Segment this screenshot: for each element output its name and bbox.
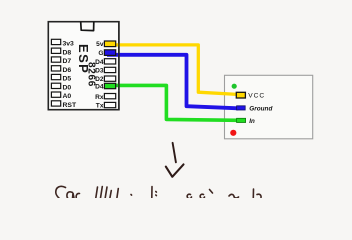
left pin row 3 (D7) (51, 57, 60, 62)
dot (130, 194, 133, 197)
right pin row 2 (G, blue) (104, 50, 115, 56)
right pin row 5 (D2) (104, 76, 115, 81)
chip border redraw over wires (48, 22, 119, 110)
left pin row 5 (D5) (51, 74, 60, 79)
svg-text:5v: 5v (96, 41, 104, 48)
svg-text:8266: 8266 (86, 62, 97, 87)
wave (229, 194, 239, 198)
svg-text:In: In (249, 118, 255, 125)
arrow shaft (173, 143, 176, 163)
svg-text:3v3: 3v3 (63, 41, 75, 48)
svg-text:A0: A0 (63, 93, 72, 100)
svg-text:VCC: VCC (248, 93, 265, 100)
small circles (187, 194, 191, 198)
left pin row 2 (D8) (51, 48, 60, 53)
module pin VCC (236, 92, 245, 98)
left pin row 8 (RST) (51, 101, 60, 106)
chip U1 (ESP 8266) body (48, 22, 119, 110)
letter c small (76, 193, 79, 198)
letter S (56, 186, 66, 199)
last stroke (252, 189, 254, 198)
svg-text:Ground: Ground (249, 106, 273, 113)
wire G blue: chip G pin to module Ground (107, 55, 238, 109)
tall stroke with dots (151, 187, 153, 199)
left pin row 6 (D0) (51, 83, 60, 88)
right pin row 1 (5v, yellow) (104, 41, 115, 47)
svg-text:D7: D7 (63, 58, 72, 65)
svg-text:Tx: Tx (96, 103, 104, 110)
svg-text:Rx: Rx (95, 94, 104, 101)
bottom handwriting (cut off at image edge) (56, 186, 261, 199)
arrow head V (166, 164, 184, 176)
svg-text:D0: D0 (63, 84, 72, 91)
module green dot (232, 84, 237, 89)
right pin row 3 (D4) (104, 59, 115, 64)
svg-text:RST: RST (63, 102, 77, 109)
svg-text:D5: D5 (63, 76, 72, 83)
wire 5V yellow: chip 5v pin to module VCC (107, 45, 237, 95)
wire D4 green: chip green pin to module In (109, 85, 238, 120)
left pin row 4 (D6) (51, 66, 60, 71)
grave mark (210, 190, 213, 194)
letter a (67, 192, 74, 199)
svg-text:D6: D6 (63, 67, 72, 74)
module red dot (230, 130, 236, 136)
right pin row 8 (Tx) (104, 102, 115, 107)
right pin row 6 (D4 green) (104, 83, 115, 88)
chip notch (81, 22, 94, 31)
svg-text:D8: D8 (63, 50, 72, 57)
arabic strokes cluster (96, 187, 98, 198)
module pin Ground (237, 106, 246, 110)
svg-text:G: G (98, 50, 103, 57)
right pin row 4 (D3) (104, 67, 115, 72)
left pin row 1 (3v3) (51, 39, 60, 44)
left pin row 7 (A0) (51, 92, 60, 97)
module U2 body (225, 75, 313, 139)
right pin row 7 (Rx) (104, 94, 115, 99)
module pin In (237, 118, 246, 122)
